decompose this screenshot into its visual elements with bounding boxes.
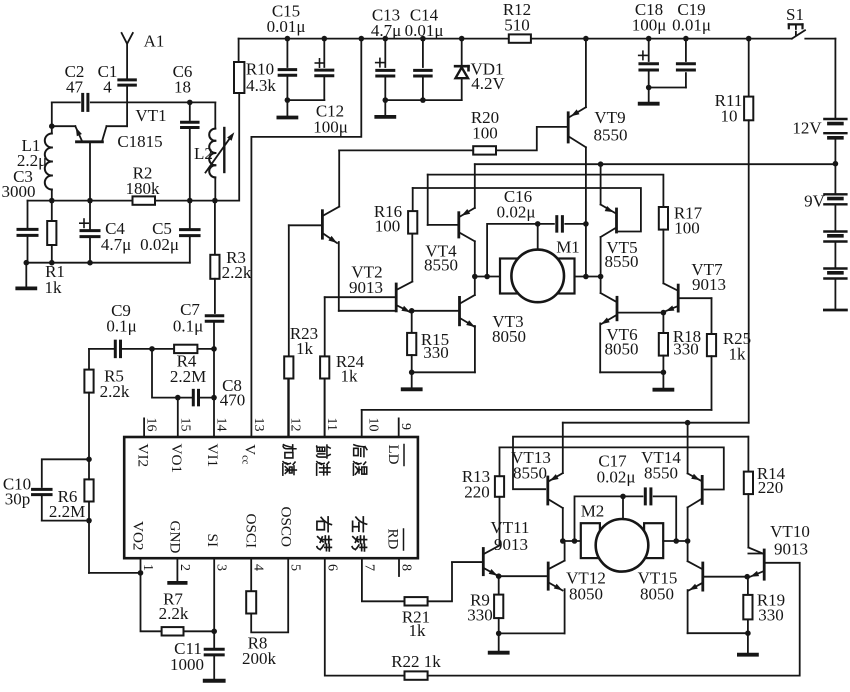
wire to L2 top [190,101,216,103]
svg-text:10: 10 [721,107,738,126]
capacitor C16 [538,223,554,225]
svg-text:4.7μ: 4.7μ [101,235,131,254]
transistor VT15 8050 [701,563,704,590]
svg-text:OSCO: OSCO [278,507,295,548]
node R15 bottom [409,370,415,376]
node C8 right [211,395,217,401]
capacitor C17 [623,495,643,497]
svg-text:0.02μ: 0.02μ [140,235,179,254]
svg-text:10: 10 [366,418,381,432]
resistor R8 [250,558,252,591]
transistor VT13 8550 [546,477,549,504]
wire VT13 base line (line C) [513,437,748,490]
transistor VT14 8550 [701,476,704,503]
antenna A1 [122,33,133,44]
svg-text:470: 470 [220,391,246,410]
wire VT12 emitter return [499,632,565,634]
node R4/pin14 col [211,346,217,352]
IC U1 body [124,437,418,558]
IC pin 10 stub [361,410,363,437]
inductor L1 [51,126,53,133]
svg-text:11: 11 [324,418,339,431]
node M1 right brush [583,274,589,280]
svg-text:16: 16 [144,418,159,432]
svg-text:0.02μ: 0.02μ [597,468,636,487]
svg-text:L2: L2 [194,144,213,163]
svg-text:1: 1 [140,564,155,571]
resistor R19 [747,577,749,595]
svg-text:330: 330 [758,606,784,625]
wire M2 right terminal [663,540,687,542]
ground (R15) [411,372,413,387]
switch S1 [792,30,805,38]
svg-text:VI1: VI1 [204,444,221,468]
svg-text:9013: 9013 [349,278,383,297]
svg-text:12V: 12V [792,119,822,138]
node C16 riser [484,274,490,280]
svg-text:2.2k: 2.2k [222,263,252,282]
node M2 right outer [685,538,691,544]
wire VT6 base row [619,312,664,314]
node VT11 emitter / R9 [496,573,502,579]
svg-text:VO2: VO2 [130,521,147,551]
transistor VT5 8550 [615,209,618,232]
svg-text:100: 100 [472,123,498,142]
resistor R10 [238,39,240,62]
svg-text:VT9: VT9 [594,108,625,127]
svg-text:13: 13 [251,418,266,432]
transistor VT3a 9013 (mid) [395,284,398,311]
transistor VT6 8050 [616,297,619,320]
transistor VT7 9013 [677,285,680,311]
svg-text:12: 12 [288,418,303,432]
svg-text:2: 2 [177,564,192,571]
svg-text:1000: 1000 [170,655,204,674]
wire C14/VD1 bottom [385,99,461,101]
svg-text:510: 510 [504,15,530,34]
capacitor C8 [192,390,195,405]
capacitor C11 [205,648,223,651]
pin name 10 backward [354,445,367,457]
capacitor C2 [81,94,84,110]
inductor L2 adjustable [209,129,215,141]
node M2 post [620,494,626,500]
node VT6 base / VT7 emitter / R18 [661,310,667,316]
transistor VT12 8050 [547,563,550,589]
svg-text:VT1: VT1 [135,106,166,125]
IC pin 9 stub [398,418,400,437]
svg-text:9013: 9013 [774,540,808,559]
resistor R12 in rail [509,34,531,42]
node R5/R6/C10 [86,457,92,463]
svg-text:C1815: C1815 [117,132,162,151]
node R18 bottom [661,370,667,376]
svg-text:0.1μ: 0.1μ [106,317,136,336]
svg-text:8050: 8050 [492,327,526,346]
node R19 bottom [745,630,751,636]
wire R4 right [197,348,214,350]
transistor VT10 9013 [763,550,766,579]
svg-text:2.2k: 2.2k [159,604,189,623]
IC pin 15 stub [177,398,179,437]
9V rail to motor drivers [475,163,836,165]
capacitor C9 [114,341,117,357]
resistor R7 [162,627,184,635]
wire VT13 emitter riser [562,423,564,473]
capacitor C10 branch [42,459,89,487]
node M1 post [535,221,541,227]
wire R22 to VT10 base [428,563,800,676]
resistor R20 [473,146,496,154]
svg-text:100: 100 [674,219,700,238]
capacitor C14 [420,36,426,42]
svg-text:4.2V: 4.2V [471,74,505,93]
svg-text:8550: 8550 [513,464,547,483]
capacitor C18 electrolytic [646,36,652,42]
resistor R1 [51,201,53,221]
wire C19 bottom [649,87,686,89]
svg-text:14: 14 [214,418,229,432]
svg-text:220: 220 [758,478,784,497]
svg-text:A1: A1 [144,32,165,51]
wire left column to L1 [51,102,53,126]
svg-text:4: 4 [251,564,266,571]
resistor R14 [747,437,749,472]
svg-text:1k: 1k [729,345,747,364]
node C8 left / pin15 [175,395,181,401]
svg-text:LD: LD [385,445,401,465]
resistor R15 [411,311,413,333]
node C3 gnd [24,260,30,266]
node VT1 base [87,198,93,204]
svg-text:8050: 8050 [605,340,639,359]
node C16 right / VT9 collector [583,221,589,227]
top +V rail [239,38,509,40]
svg-text:M1: M1 [556,238,580,257]
svg-text:3000: 3000 [2,182,36,201]
svg-text:7: 7 [361,564,376,571]
svg-text:3: 3 [214,564,229,571]
ground (R9) [498,633,500,650]
resistor R13 [495,476,504,497]
ground (R19) [747,633,749,653]
svg-text:0.1μ: 0.1μ [173,317,203,336]
wire C8 row [178,397,193,399]
svg-text:SI: SI [204,534,221,548]
resistor R9 [498,576,500,594]
node L1/R1 bottom [49,198,55,204]
wire R21 to VT11 base [428,562,483,601]
svg-text:9013: 9013 [494,535,528,554]
resistor R24 [324,297,326,356]
capacitor C19 [683,36,689,42]
capacitor C12 electrolytic [322,36,328,42]
node C15/C12 gnd [285,97,291,103]
wire VT9 collector to M1 right [585,224,587,277]
svg-text:8: 8 [399,564,414,571]
pin name 6 turn-right [317,517,331,532]
svg-text:S1: S1 [786,5,804,24]
transistor VT11 9013 [482,549,485,575]
battery 9V stack [834,164,836,194]
IC pin 11 stub [324,379,326,438]
wire line B from R11 to M2 supply [563,422,749,424]
node C18/C19 gnd [646,85,652,91]
svg-text:OSCI: OSCI [242,514,259,549]
svg-text:30p: 30p [5,490,31,509]
svg-text:0.01μ: 0.01μ [267,17,306,36]
capacitor C3 branch [27,201,29,230]
transistor VT2 9013 [321,211,324,239]
node R9 bottom [496,631,502,637]
svg-text:8550: 8550 [644,464,678,483]
svg-text:8550: 8550 [424,256,458,275]
node C9/R4/C8 [149,346,155,352]
svg-text:100μ: 100μ [313,118,348,137]
transistor VT1 C1815 [77,140,103,143]
zener diode VD1 4.2V [459,36,465,42]
svg-text:RD: RD [384,529,400,550]
resistor R25 [711,298,713,334]
svg-text:15: 15 [177,418,192,432]
motor M1 [500,259,519,294]
svg-text:M2: M2 [581,502,605,521]
node C6/C5 column [187,198,193,204]
wire M1 right terminal [575,276,601,278]
node C14 gnd [420,97,426,103]
capacitor C13 electrolytic [383,36,389,42]
node C6 top [187,100,193,106]
svg-text:47: 47 [66,77,84,96]
svg-text:6: 6 [324,564,339,571]
wire R7 to pin3 column [184,630,215,632]
svg-text:1k: 1k [45,278,63,297]
capacitor C4 electrolytic [89,201,91,231]
IC pin 14 stub [213,398,215,437]
resistor R17 [659,207,668,230]
ground (C18) [648,88,650,102]
motor M2 [581,523,600,558]
node C4 gnd [87,260,93,266]
ground (C13) [384,100,386,115]
svg-text:180k: 180k [126,179,161,198]
resistor R6 [84,479,93,501]
wire M2 left terminal [563,540,581,542]
svg-text:100μ: 100μ [632,15,667,34]
wire pin1 to R6 [89,572,141,574]
node VT10 emitter / R19 / VT15 base [744,574,750,580]
svg-text:330: 330 [673,340,699,359]
svg-text:9013: 9013 [692,275,726,294]
wire row y=102.4 (C2 row) [52,101,80,103]
wire cross-coupling y=174.6 (VT4 base) [428,175,664,207]
capacitor C6 [189,102,191,120]
svg-text:330: 330 [467,606,493,625]
svg-text:8050: 8050 [569,585,603,604]
svg-text:9: 9 [398,423,413,430]
resistor R21 [405,597,428,605]
resistor R5 [88,349,90,370]
node L2/R3 column [212,198,218,204]
resistor R16 [408,211,417,234]
wire R20 right to VT9 base [496,127,567,150]
wire pin6 to R22 [325,558,405,675]
wire R20 left to VT2 collector [339,149,473,151]
resistor R4 [152,348,174,350]
svg-text:0.01μ: 0.01μ [672,15,711,34]
svg-text:5: 5 [288,564,303,571]
svg-text:220: 220 [464,483,490,502]
IC pin 16 stub [143,418,145,437]
svg-text:100: 100 [375,217,401,236]
ground (C15) [286,100,288,116]
svg-text:4: 4 [103,77,112,96]
resistor R3 [214,201,216,255]
svg-text:1k: 1k [341,367,359,386]
transistor VT9 8550 [567,113,570,142]
wire IC pin10 to R25 (backward line) [362,409,712,411]
ground (oscillator) [25,263,27,287]
svg-text:1k: 1k [296,339,314,358]
node M2 right inner [673,538,679,544]
node VT3 base row [409,308,415,314]
svg-text:8050: 8050 [640,585,674,604]
node line B / M2 right riser [685,420,691,426]
node R7/C11 [211,629,217,635]
svg-text:1k: 1k [409,621,427,640]
node M2 left outer [560,538,566,544]
node R6 bottom [86,518,92,524]
wire cross-coupling y=188 (R16 top) [413,188,641,232]
IC pin 8 stub [398,558,400,576]
IC pin 12 stub [287,379,289,438]
wire C16 left riser [487,224,538,277]
node VT1 emitter junction [49,123,55,129]
node Vcc drop [359,36,365,42]
svg-text:GND: GND [167,521,184,554]
svg-text:2.2M: 2.2M [170,367,206,386]
capacitor C7 in pin14 column [214,279,216,313]
node VT5/VT6 collectors [598,274,604,280]
pin name 12 accelerate [283,445,296,458]
svg-text:200k: 200k [242,649,277,668]
wire pin7 to R21 [362,558,405,601]
resistor R2 [133,196,156,204]
transistor VT4 8550 [457,213,460,237]
node M2 left inner [572,538,578,544]
wire pin3 column [213,558,215,647]
capacitor C15 [285,36,291,42]
resistor R18 [662,313,664,333]
svg-text:VO1: VO1 [168,444,185,474]
resistor R23 [288,225,290,356]
svg-text:4.7μ: 4.7μ [371,21,401,40]
capacitor C5 [189,201,191,230]
svg-text:2.2k: 2.2k [100,382,130,401]
wire M1 left terminal [475,276,500,278]
wire to VT12 base [499,575,548,577]
battery 12V [834,39,836,118]
node C13 gnd [383,97,389,103]
svg-text:VI2: VI2 [134,444,151,468]
pin name 7 turn-left [353,517,367,532]
node M1 left (VT4/VT3) [472,274,478,280]
transistor VT3 8050 [458,297,461,324]
svg-text:0.01μ: 0.01μ [405,21,444,40]
svg-text:R22 1k: R22 1k [391,652,441,671]
node R1 gnd [49,260,55,266]
svg-text:VT10: VT10 [770,522,810,541]
svg-text:2.2M: 2.2M [49,502,85,521]
wire row y=200.6 (R2 row) [28,200,133,202]
wire R13 cross line to VT14 base [500,447,724,489]
svg-text:8550: 8550 [605,252,639,271]
ground (pin 2 GND) [176,558,178,581]
wire C9 row [89,348,115,350]
svg-text:0.02μ: 0.02μ [497,203,536,222]
ground (R18) [662,372,664,388]
svg-text:4.3k: 4.3k [246,76,276,95]
wire base row to VT3 [412,310,460,312]
resistor R22 [405,671,428,679]
svg-text:8550: 8550 [594,126,628,145]
resistor R11 [746,36,752,42]
wire pin1 column [140,558,142,573]
wire C17 left riser [575,496,624,541]
wire R6 to pin1 [88,521,90,573]
wire Vcc feed to IC pin 13 [251,39,361,437]
wire pin1 down to R7 [141,573,162,631]
capacitor C1 (antenna coupling) [119,78,136,81]
svg-text:330: 330 [423,343,449,362]
node 9V tap [833,161,839,167]
svg-text:9V: 9V [804,192,826,211]
svg-text:18: 18 [174,77,191,96]
pin name 11 forward [317,445,331,458]
node pin1 [138,570,144,576]
wire C8 branch [152,349,178,398]
ground wire row y=262.7 [26,262,190,264]
